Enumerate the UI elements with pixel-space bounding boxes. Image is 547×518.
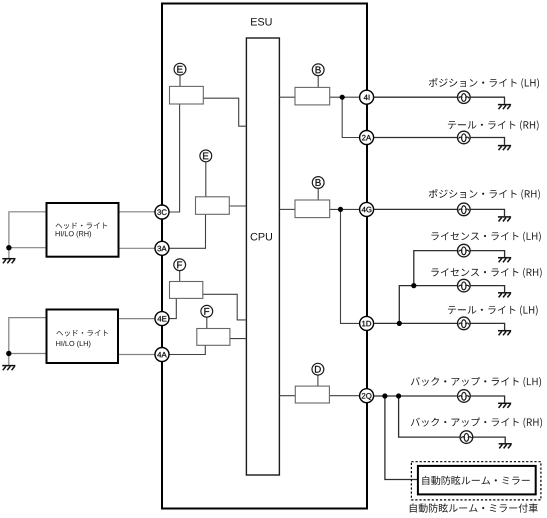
wire license RH branch (399, 286, 457, 324)
lamp backup light RH (460, 431, 473, 444)
circle F1 (174, 259, 186, 271)
ground license LH (498, 258, 511, 263)
ground headlight RH (2, 259, 15, 264)
CPU U1 (246, 38, 279, 475)
junction license LH/RH (411, 283, 416, 288)
label HI/LO LH (56, 341, 90, 348)
connector 2Q (360, 389, 374, 403)
wire E1 to CPU (203, 98, 246, 126)
auto-dimming mirror dashed enclosure (411, 462, 541, 500)
wire license lamp LH to ground (470, 251, 505, 257)
wire 4I to position lamp LH (374, 96, 458, 98)
wire backup RH branch (399, 396, 461, 437)
label backup light LH (411, 377, 541, 387)
lamp position light RH (458, 203, 471, 216)
ground backup RH (499, 444, 512, 449)
wire CPU to B2 (279, 208, 295, 210)
wire headlight LH to 4E (118, 318, 155, 320)
junction headlight LH ground (6, 351, 11, 356)
wire F1 to 4E (169, 298, 176, 318)
wire headlight RH to 3A (119, 247, 155, 249)
junction 2Q mirror (382, 393, 387, 398)
wire 2Q to mirror (385, 396, 418, 480)
connector 4E (155, 312, 169, 326)
label tail light RH (448, 120, 539, 130)
wire CPU to B1 (279, 96, 295, 98)
wire headlight RH top to ground lead (9, 212, 47, 258)
wire junction B2 to 1D (341, 209, 360, 323)
headlight HI/LO (LH) unit (47, 310, 119, 364)
relay driver F2 (197, 329, 230, 346)
connector 4I (360, 90, 374, 104)
stem circle F1 (179, 271, 181, 282)
label tail light LH (448, 305, 538, 315)
stem circle F2 (206, 317, 208, 328)
stem circle D1 (317, 375, 319, 386)
ground position RH (498, 217, 511, 222)
label ESU (251, 18, 271, 26)
wire F2 to 4A (169, 345, 205, 354)
wire F2 to CPU (230, 338, 247, 340)
junction 1D branch (397, 321, 402, 326)
label HI/LO RH (56, 231, 91, 238)
wire junction B1 to 2A (342, 97, 359, 137)
stem circle B1 (317, 76, 319, 88)
wire backup lamp LH to ground (470, 396, 504, 403)
lamp tail light RH (458, 131, 471, 144)
ground tail LH (498, 331, 511, 336)
junction headlight RH ground (6, 245, 11, 250)
wire E2 to CPU (229, 205, 246, 207)
circle B2 (312, 177, 324, 189)
wire B2 to 4G (330, 208, 360, 210)
wire 1D to tail lamp LH (374, 322, 458, 324)
wire E2 to 3A (169, 214, 206, 248)
ground position LH (498, 105, 511, 110)
wire D1 to 2Q (329, 395, 359, 397)
wire tail lamp LH to ground (470, 323, 505, 330)
wire license lamp RH to ground (470, 286, 505, 293)
connector 3A (155, 241, 169, 255)
wire B1 to 4I (330, 96, 360, 98)
ground headlight LH (2, 366, 15, 371)
junction 2Q backup RH (396, 393, 401, 398)
connector 2A (360, 131, 374, 145)
stem circle E2 (205, 162, 207, 197)
wire F1 to CPU (203, 294, 247, 320)
relay driver D1 (295, 386, 329, 403)
wire position lamp RH to ground (470, 209, 504, 216)
circle B1 (312, 64, 324, 76)
lamp tail light LH (458, 317, 471, 330)
wire headlight LH top to ground lead (9, 318, 47, 365)
label mirror-equipped vehicle (410, 503, 538, 512)
ground backup LH (498, 403, 511, 408)
label CPU (251, 233, 272, 241)
wire tail lamp RH to ground (470, 138, 504, 145)
stem circle E1 (179, 75, 181, 86)
wire position lamp LH to ground (470, 97, 504, 104)
label position light LH (429, 78, 539, 89)
wire 2A to tail lamp RH (374, 137, 458, 139)
wire 2Q to backup lamp LH (374, 395, 458, 397)
wire backup lamp RH to ground (473, 437, 506, 443)
relay driver E2 (196, 197, 230, 215)
label license light RH (431, 268, 541, 278)
label position light RH (429, 189, 540, 200)
lamp position light LH (458, 91, 471, 104)
relay driver B1 (295, 87, 330, 105)
lamp license light LH (458, 244, 471, 257)
connector 4A (155, 348, 169, 362)
label auto-dimming room mirror (422, 476, 529, 485)
label backup light RH (411, 418, 542, 428)
junction B1/2A (340, 95, 345, 100)
connector 4G (360, 202, 374, 216)
ground license RH (498, 293, 511, 298)
auto-dimming mirror unit (418, 466, 536, 495)
lamp license light RH (458, 279, 471, 292)
junction B2/1D (338, 207, 343, 212)
circle E2 (200, 150, 212, 162)
wire license LH branch (414, 251, 458, 286)
relay driver E1 (170, 86, 204, 104)
ground tail RH (498, 146, 511, 151)
wire E1 to 3C (169, 104, 180, 212)
connector 1D (360, 316, 374, 330)
relay driver F1 (170, 282, 203, 299)
wire headlight LH to 4A (118, 354, 155, 356)
wire headlight RH low (9, 247, 47, 249)
circle E1 (174, 63, 186, 75)
label headlight RH jp (56, 222, 108, 229)
wire headlight LH low (9, 353, 47, 355)
label license light LH (431, 232, 540, 242)
lamp backup light LH (458, 390, 471, 403)
relay driver B2 (295, 200, 330, 218)
circle F2 (201, 305, 213, 317)
wire 4G to position lamp RH (374, 208, 458, 210)
headlight HI/LO (RH) unit (47, 203, 119, 257)
connector 3C (155, 205, 169, 219)
wire CPU to D1 (279, 395, 295, 397)
circle D1 (312, 363, 324, 375)
stem circle B2 (317, 188, 319, 200)
wire headlight RH to 3C (119, 211, 155, 213)
label headlight LH jp (56, 330, 108, 337)
ESU box (162, 4, 367, 509)
